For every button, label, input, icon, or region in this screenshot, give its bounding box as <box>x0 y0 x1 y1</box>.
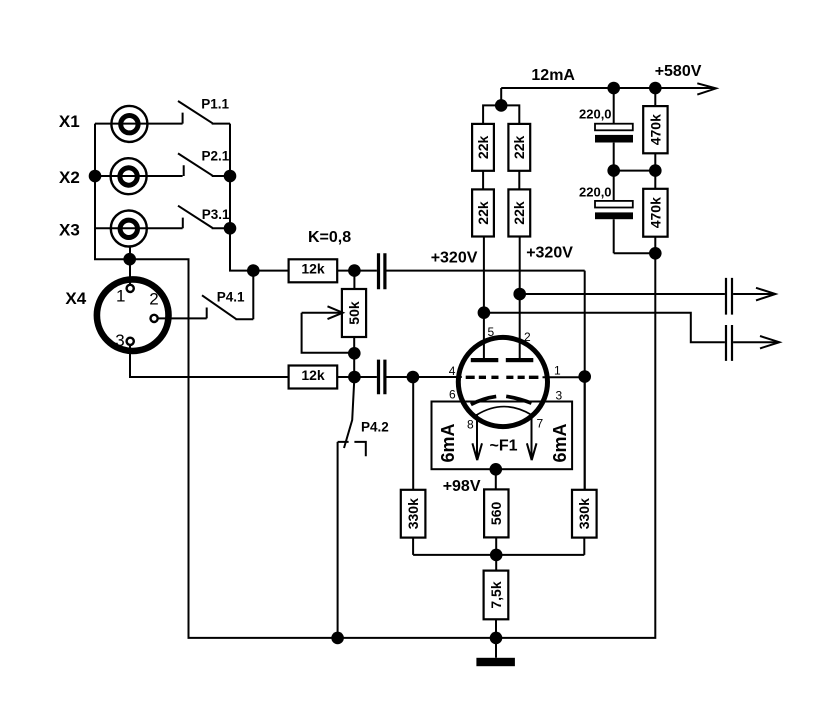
svg-text:12k: 12k <box>301 367 325 383</box>
svg-text:1: 1 <box>554 364 561 378</box>
svg-text:4: 4 <box>449 364 456 378</box>
svg-text:+580V: +580V <box>655 63 702 80</box>
svg-text:470k: 470k <box>647 197 663 228</box>
svg-text:7: 7 <box>537 417 544 431</box>
svg-text:12k: 12k <box>301 260 325 276</box>
svg-text:P1.1: P1.1 <box>201 97 229 112</box>
svg-text:P2.1: P2.1 <box>202 148 230 163</box>
svg-text:+98V: +98V <box>443 478 481 495</box>
svg-text:X3: X3 <box>59 221 80 240</box>
svg-text:+320V: +320V <box>526 245 573 262</box>
svg-text:6mA: 6mA <box>438 423 458 462</box>
svg-text:3: 3 <box>115 331 124 350</box>
svg-text:22k: 22k <box>511 201 527 225</box>
svg-text:330k: 330k <box>576 498 592 529</box>
svg-text:+320V: +320V <box>431 250 478 267</box>
svg-text:2: 2 <box>149 289 158 308</box>
svg-text:6: 6 <box>449 388 456 402</box>
svg-text:P4.1: P4.1 <box>217 290 245 305</box>
svg-text:K=0,8: K=0,8 <box>308 229 351 246</box>
svg-text:22k: 22k <box>475 136 491 160</box>
svg-text:X2: X2 <box>59 168 80 187</box>
svg-text:3: 3 <box>556 389 563 403</box>
svg-text:2: 2 <box>524 330 531 344</box>
svg-text:50k: 50k <box>346 301 362 325</box>
svg-text:P3.1: P3.1 <box>202 207 230 222</box>
svg-text:12mA: 12mA <box>531 67 575 84</box>
svg-text:220,0: 220,0 <box>579 184 612 199</box>
svg-text:5: 5 <box>488 325 495 339</box>
svg-text:22k: 22k <box>511 136 527 160</box>
svg-text:220,0: 220,0 <box>579 106 612 121</box>
svg-text:560: 560 <box>488 502 504 526</box>
svg-text:X4: X4 <box>65 289 86 308</box>
svg-text:6mA: 6mA <box>550 423 570 462</box>
svg-text:22k: 22k <box>475 201 491 225</box>
svg-text:~F1: ~F1 <box>490 437 518 454</box>
svg-text:8: 8 <box>467 418 474 432</box>
svg-text:7,5k: 7,5k <box>488 581 504 608</box>
svg-text:470k: 470k <box>647 114 663 145</box>
svg-text:1: 1 <box>116 287 125 306</box>
svg-text:330k: 330k <box>405 498 421 529</box>
svg-text:X1: X1 <box>59 112 80 131</box>
svg-text:P4.2: P4.2 <box>361 419 389 434</box>
